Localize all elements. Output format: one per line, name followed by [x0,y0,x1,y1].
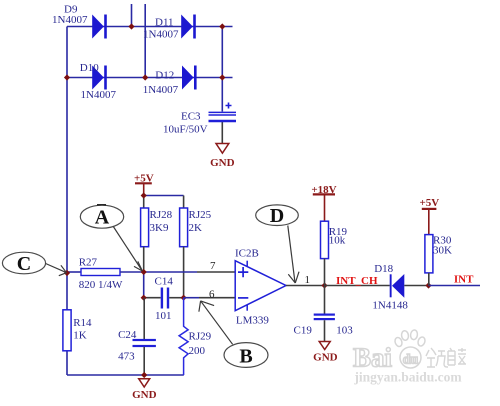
power +18V [311,184,336,221]
svg-text:1N4007: 1N4007 [81,89,117,101]
capacitor C24 [133,339,156,375]
wire: +5V node down to RJ28 [143,196,145,209]
svg-text:6: 6 [209,288,215,300]
wire: C24 top lead [143,298,145,339]
svg-text:10uF/50V: 10uF/50V [163,123,208,135]
wire: branch down to RJ25 [183,196,185,209]
svg-text:INT: INT [454,274,474,286]
svg-text:1: 1 [305,274,311,286]
wire: right column x=222 row1 to row2 to EC3 [221,27,223,112]
resistor R27 [67,269,144,276]
svg-text:LM339: LM339 [236,315,270,327]
wire: node to INT right edge [429,285,481,287]
resistor RJ29 (zigzag) [179,298,188,375]
svg-text:GND: GND [313,352,338,364]
junction at +5V node [141,192,147,198]
watermark Baidu logo [353,330,466,385]
junction C14 right / pin6 node [181,295,187,301]
svg-text:3K9: 3K9 [150,222,169,234]
junction output node [321,282,327,288]
ground symbol (C19) [313,342,338,364]
capacitor C19 [314,314,335,342]
junction C24 bottom / GND [141,372,147,378]
svg-text:RJ25: RJ25 [189,209,212,221]
svg-text:D11: D11 [155,17,174,29]
svg-text:R14: R14 [73,317,92,329]
wire: output node down to C19 [324,286,326,314]
svg-text:IC2B: IC2B [235,248,259,260]
svg-text:du: du [403,353,419,368]
svg-text:1N4148: 1N4148 [372,299,408,311]
wire: pin6 to opamp [184,297,199,299]
svg-text:R27: R27 [79,256,98,268]
svg-text:C24: C24 [118,329,137,341]
op-amp IC2B [235,261,286,311]
callout ellipse D [256,205,299,283]
svg-text:RJ28: RJ28 [150,209,173,221]
svg-text:GND: GND [132,389,157,401]
svg-text:101: 101 [155,310,172,322]
resistor RJ25 [180,208,188,247]
resistor R19 [321,221,329,258]
wire: RJ28 bottom to node A [143,247,145,272]
svg-text:A: A [95,206,110,228]
resistor RJ28 [141,208,149,247]
junction left rail row2 [64,74,70,80]
wire: left rail below R14 [66,351,68,375]
svg-text:B: B [239,345,252,367]
resistor R14 [63,310,71,351]
callout ellipse B [199,301,268,368]
svg-text:Bai: Bai [353,343,393,373]
diode D18 [390,274,429,298]
svg-text:D: D [270,205,284,227]
wire: node A down to C14 node [143,272,145,298]
svg-text:D10: D10 [80,62,99,74]
power +5V (middle) [134,172,154,195]
svg-text:10k: 10k [329,235,346,247]
svg-text:200: 200 [189,345,206,357]
svg-text:C: C [17,253,31,275]
ground symbol (EC3) [210,144,235,169]
svg-text:1N4007: 1N4007 [52,14,88,26]
wire: left rail vertical [66,27,68,310]
svg-text:2K: 2K [189,222,203,234]
svg-text:1K: 1K [73,329,87,341]
svg-text:30K: 30K [433,244,452,256]
svg-text:RJ29: RJ29 [189,331,212,343]
svg-text:820 1/4W: 820 1/4W [79,279,123,291]
wire: output node to D18 [325,285,390,287]
resistor R30 [425,235,433,273]
junction row1 stub1 [128,23,134,29]
svg-text:7: 7 [210,260,216,272]
svg-text:1N4007: 1N4007 [143,29,179,41]
svg-text:GND: GND [210,157,235,169]
svg-text:C14: C14 [155,275,174,287]
power +5V (right) [420,197,440,235]
callout ellipse C [2,252,66,276]
junction row2 right column [219,74,225,80]
junction node A [141,269,147,275]
capacitor EC3 [209,103,237,122]
ground symbol (bottom) [132,379,157,401]
junction row2 stub2 [142,74,148,80]
svg-text:D12: D12 [155,69,174,81]
wire: RJ25 bottom down to pin6 node [183,247,185,298]
capacitor C14 [144,288,184,309]
wire: R30 bottom to node [428,273,430,286]
wire: top stub 1 [131,4,133,27]
svg-text:C19: C19 [294,325,313,337]
diode D10 [92,66,107,90]
svg-text:EC3: EC3 [181,111,201,123]
svg-text:1N4007: 1N4007 [143,84,179,96]
wire: bottom ground bus [67,374,184,376]
wire: +5V node to RJ25 branch [144,195,184,197]
svg-text:+5V: +5V [420,197,440,209]
junction row1 right column [219,23,225,29]
wire: pin7 from node A to opamp [144,271,197,273]
diode D11 [181,15,196,39]
svg-text:D18: D18 [374,263,393,275]
junction D18/R30 node [425,282,431,288]
diode D12 [182,66,197,90]
wire: row2 horizontal [67,77,233,79]
wire: row1 horizontal [67,26,233,28]
diode D9 [92,15,107,39]
junction left rail / R27 [64,270,70,276]
callout ellipse A [80,205,142,271]
svg-text:473: 473 [118,351,135,363]
wire: EC3 bottom to GND [221,122,223,143]
wire: opamp output to junction [286,285,325,287]
wire: top stub 2 crossing row1 to row2 [144,4,146,78]
wire: R19 bottom to output node [324,259,326,286]
svg-text:jingyan.baidu.com: jingyan.baidu.com [353,370,462,385]
svg-text:103: 103 [336,324,353,336]
svg-text:INT_CH: INT_CH [336,275,378,287]
junction C14 left [141,295,147,301]
